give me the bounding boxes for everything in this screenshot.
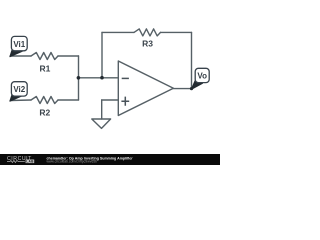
wire noninverting input <box>102 99 119 101</box>
logo LAB <box>26 160 35 164</box>
svg-text:R2: R2 <box>39 108 50 118</box>
op-amp U1 <box>118 61 173 116</box>
svg-text:R3: R3 <box>142 38 153 48</box>
footer bar <box>0 154 220 165</box>
wire R3 right <box>161 31 192 33</box>
node junction dot output <box>190 87 193 90</box>
node junction dot R1/R2 <box>77 76 81 80</box>
svg-text:Vi2: Vi2 <box>13 85 25 94</box>
wire output <box>173 88 191 90</box>
ground <box>92 119 111 128</box>
svg-text:LAB: LAB <box>26 160 34 164</box>
wire R3 right riser <box>191 32 193 88</box>
flag Vi1 <box>10 36 27 56</box>
svg-text:Vo: Vo <box>197 72 207 81</box>
wire R3 left <box>102 31 134 33</box>
op-amp plus sign <box>121 97 129 106</box>
wire R2 to riser <box>58 99 79 101</box>
wire inverting input net <box>78 77 118 79</box>
svg-text:R1: R1 <box>39 64 50 74</box>
wire R3 left riser <box>101 32 103 77</box>
wire Vi1 to R1 <box>10 55 31 57</box>
resistor R2 <box>31 97 58 104</box>
svg-text:Vi1: Vi1 <box>13 40 25 49</box>
wire Vi2 to R2 <box>10 99 31 102</box>
resistor R3 <box>134 29 161 36</box>
wire riser R1-R2 <box>78 56 80 100</box>
svg-text:www.circuitlab.com/c/mpc9wv65b: www.circuitlab.com/c/mpc9wv65b <box>47 160 98 164</box>
flag Vi2 <box>10 82 27 101</box>
resistor R1 <box>31 53 58 60</box>
op-amp minus sign <box>122 77 129 79</box>
node junction dot R3 tap <box>100 76 104 80</box>
logo zigzag <box>7 160 25 162</box>
wire R1 to riser <box>58 55 79 57</box>
flag Vo <box>191 68 209 89</box>
wire to ground <box>101 100 103 119</box>
